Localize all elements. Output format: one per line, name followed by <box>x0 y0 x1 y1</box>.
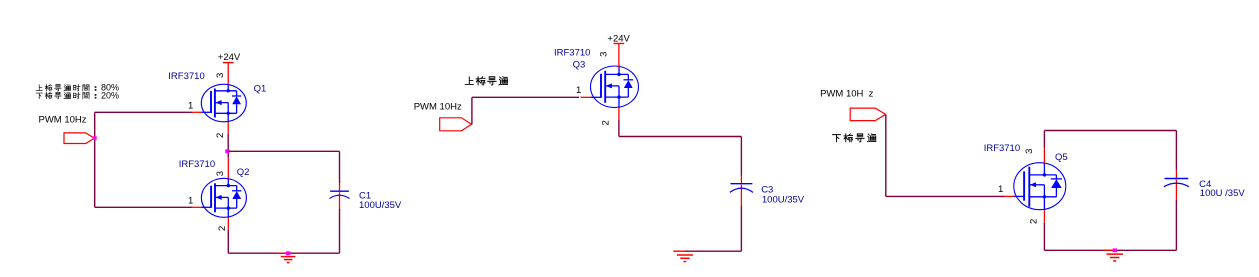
svg-text:+24V: +24V <box>218 52 241 63</box>
svg-text:2: 2 <box>217 226 228 231</box>
svg-text:IRF3710: IRF3710 <box>168 71 204 82</box>
svg-text:1: 1 <box>576 85 581 96</box>
svg-text:3: 3 <box>598 52 609 57</box>
svg-text:PWM 10H z: PWM 10H z <box>820 88 874 99</box>
svg-text:IRF3710: IRF3710 <box>179 159 215 170</box>
svg-text:100U/35V: 100U/35V <box>359 200 402 211</box>
svg-text:IRF3710: IRF3710 <box>554 48 590 59</box>
svg-text:100U /35V: 100U /35V <box>1200 188 1246 199</box>
svg-text:PWM 10Hz: PWM 10Hz <box>39 115 87 126</box>
svg-text:3: 3 <box>215 73 226 78</box>
svg-text:3: 3 <box>1024 149 1035 154</box>
svg-text:1: 1 <box>188 101 193 112</box>
svg-text:100U/35V: 100U/35V <box>762 195 805 206</box>
svg-text:+24V: +24V <box>607 34 630 45</box>
svg-text:1: 1 <box>998 184 1003 195</box>
svg-text:1: 1 <box>188 195 193 206</box>
svg-text:PWM 10Hz: PWM 10Hz <box>414 101 462 112</box>
svg-text:Q1: Q1 <box>254 83 267 94</box>
svg-text:3: 3 <box>215 171 226 176</box>
svg-text:Q3: Q3 <box>573 59 586 70</box>
svg-text:2: 2 <box>1029 219 1040 224</box>
svg-text:2: 2 <box>601 120 612 125</box>
svg-text:Q5: Q5 <box>1055 152 1068 163</box>
svg-text:IRF3710: IRF3710 <box>984 143 1020 154</box>
svg-text:Q2: Q2 <box>237 167 250 178</box>
svg-text:2: 2 <box>215 133 226 138</box>
svg-text:20%: 20% <box>101 90 119 100</box>
